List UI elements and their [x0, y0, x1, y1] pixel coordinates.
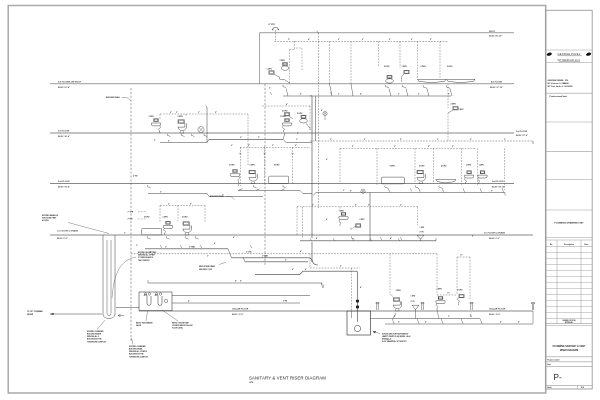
svg-text:2": 2": [428, 146, 430, 148]
svg-text:2" CWL: 2" CWL: [246, 251, 252, 253]
cellar hub drain: [411, 295, 420, 318]
new house trap note: [162, 310, 193, 330]
svg-text:1st FLOOR & GRADE: 1st FLOOR & GRADE: [57, 230, 79, 233]
svg-text:ELEV. 27'-6": ELEV. 27'-6": [516, 135, 528, 137]
building wall label left: [106, 96, 131, 100]
svg-text:PLUMBING SANITARY & VENT: PLUMBING SANITARY & VENT: [553, 345, 586, 348]
svg-text:BUILDING WALL: BUILDING WALL: [106, 96, 121, 99]
svg-text:ELEV. 18'-10": ELEV. 18'-10": [492, 187, 505, 189]
svg-text:8": 8": [286, 104, 288, 106]
svg-text:ROOF: ROOF: [489, 31, 496, 33]
svg-text:2": 2": [448, 316, 450, 318]
title block: sheet number P-: [554, 373, 562, 382]
4th floor fixture left of stack: wc 2DFU: [282, 111, 293, 120]
svg-text:2": 2": [231, 145, 233, 147]
svg-text:2 DFU: 2 DFU: [144, 216, 150, 218]
4th floor planter drain 1: [418, 66, 447, 88]
floor line: 6th FLOOR/LOW ROOF - 4th FLOOR: [50, 80, 514, 88]
floor line: ROOF: [260, 31, 515, 84]
svg-text:TOWNHOUSE COMPLEX: TOWNHOUSE COMPLEX: [87, 341, 107, 343]
svg-text:Project number: Project number: [547, 358, 560, 361]
svg-text:3": 3": [394, 316, 396, 318]
svg-text:ELEV. 51'-4": ELEV. 51'-4": [58, 86, 70, 89]
svg-text:BUILDINGS IN THE: BUILDINGS IN THE: [129, 354, 143, 356]
existing manhole note: [42, 214, 109, 234]
vtr/fai labels at wall: [128, 211, 147, 220]
svg-text:2": 2": [343, 190, 345, 192]
svg-text:N/ S: N/ S: [581, 387, 584, 389]
svg-text:1 DFU: 1 DFU: [280, 116, 286, 118]
svg-text:3" SAN: 3" SAN: [189, 246, 196, 249]
svg-text:1st FLOOR & GRADE: 1st FLOOR & GRADE: [484, 232, 506, 235]
floor drain 2nd floor right: [361, 189, 365, 193]
existing house trap (double U): [103, 235, 115, 319]
svg-text:2" VTR: 2" VTR: [128, 211, 134, 213]
svg-text:2": 2": [398, 94, 400, 96]
svg-text:ELEV. 60'-10": ELEV. 60'-10": [489, 36, 502, 38]
svg-text:1 DFU: 1 DFU: [466, 165, 472, 167]
1st floor branch drain left building (3in SAN): [145, 246, 312, 262]
1st floor lav right building: [339, 211, 349, 226]
svg-text:2 DFU: 2 DFU: [447, 66, 453, 68]
svg-text:2nd FLOOR: 2nd FLOOR: [58, 181, 70, 183]
svg-text:2 DFU: 2 DFU: [274, 164, 280, 166]
vent riser drops from roof header: [294, 41, 440, 84]
svg-text:2" FAI: 2" FAI: [128, 218, 133, 221]
vent thru roof VTR cap: [269, 23, 279, 41]
2nd floor tub left building: [269, 164, 289, 188]
svg-text:2nd FLOOR: 2nd FLOOR: [492, 181, 504, 183]
2nd floor branch drain right building: [313, 188, 505, 195]
svg-text:5 TOWNHOUSES IN: 5 TOWNHOUSES IN: [138, 257, 154, 259]
2nd floor lav pair right building: [465, 165, 488, 184]
main soil stack (solid riser): [312, 96, 318, 265]
svg-text:2": 2": [364, 139, 366, 141]
1st floor sink right building: [350, 219, 365, 239]
new house trap assembly box: [116, 292, 310, 311]
svg-text:3": 3": [240, 137, 242, 139]
svg-text:2": 2": [470, 139, 472, 141]
svg-text:2": 2": [190, 203, 192, 205]
vent drop to pump pit (dashed): [310, 254, 360, 311]
svg-text:NY Cert. Auth. #: 0013922: NY Cert. Auth. #: 0013922: [548, 85, 574, 88]
svg-text:3": 3": [491, 190, 493, 192]
svg-text:2": 2": [338, 94, 340, 96]
svg-text:2": 2": [154, 139, 156, 141]
svg-text:2 DFU: 2 DFU: [451, 104, 457, 106]
drawing title: SANITARY & VENT RISER DIAGRAM: [249, 376, 326, 385]
svg-text:EXISTING COMBINED: EXISTING COMBINED: [87, 331, 104, 333]
svg-text:4": 4": [235, 280, 237, 283]
logo: firm name GEORGE PAVEL / FP DESIGN LLC: [546, 52, 591, 62]
combined drain to sewer line C: [148, 280, 324, 288]
svg-text:2": 2": [198, 112, 200, 114]
cellar cleanout risers: [376, 302, 534, 323]
svg-text:2": 2": [368, 205, 370, 207]
svg-text:2": 2": [452, 146, 454, 148]
svg-text:4": 4": [360, 286, 362, 289]
2nd floor wc left building: [249, 164, 258, 188]
storm drain leader note: [199, 262, 226, 271]
svg-text:2 DFU: 2 DFU: [282, 111, 288, 113]
low roof fixture group: lav + wc at stack: [267, 50, 295, 84]
svg-text:2 DFU: 2 DFU: [182, 216, 188, 218]
svg-text:4th FLOOR: 4th FLOOR: [491, 80, 502, 83]
svg-text:2 DFU: 2 DFU: [390, 166, 396, 168]
4th floor planter drain 2: [446, 66, 475, 88]
svg-text:FP DESIGN LLC: FP DESIGN LLC: [558, 58, 581, 62]
svg-text:ELEV. -9'-0": ELEV. -9'-0": [489, 314, 501, 316]
svg-text:2": 2": [448, 94, 450, 96]
waste riser left building 3rd floor: [206, 106, 208, 143]
title block outer box: [546, 10, 593, 389]
cellar sink: [457, 290, 464, 305]
svg-text:ELEV. 0'-0": ELEV. 0'-0": [57, 238, 68, 240]
svg-text:2": 2": [258, 137, 260, 139]
svg-text:3": 3": [296, 139, 298, 141]
cellar drain line lower: [385, 319, 533, 325]
1st floor lav left building: [163, 216, 173, 239]
svg-text:P-: P-: [554, 373, 562, 382]
svg-text:2": 2": [170, 112, 172, 114]
svg-text:2 DFU: 2 DFU: [441, 166, 447, 168]
svg-text:2": 2": [124, 233, 126, 235]
1st floor tub left building: [142, 216, 162, 239]
3rd floor vent header left building: [160, 112, 248, 166]
to city sewer arrow: [27, 311, 102, 316]
svg-text:3": 3": [160, 191, 162, 193]
svg-text:1 DFU: 1 DFU: [479, 165, 485, 167]
svg-text:PLUMBING DRAWINGS SET: PLUMBING DRAWINGS SET: [554, 222, 584, 225]
title block: scale row: [547, 385, 584, 389]
floor line: 1st FLOOR & GRADE: [50, 230, 533, 240]
title block: PLUMBING DRAWINGS SET: [554, 222, 584, 225]
svg-text:2 DFU: 2 DFU: [419, 166, 425, 168]
svg-text:3" SAN: 3" SAN: [262, 255, 269, 258]
title block: sheet title PLUMBING SANITARY & VENT RISER DIAGRAM: [553, 345, 586, 352]
svg-text:Professional Seal: Professional Seal: [550, 95, 568, 98]
svg-text:2 DFU: 2 DFU: [297, 113, 303, 115]
cellar lav: [436, 289, 445, 319]
3rd floor lav right (at wall): [280, 116, 292, 132]
engineer license text block: [548, 79, 574, 98]
1st floor vent header right building: [297, 205, 418, 238]
svg-text:FLOOR LEVEL: FLOOR LEVEL: [172, 328, 183, 330]
1st floor hub drain right building: [417, 227, 425, 241]
svg-text:1 DFU: 1 DFU: [149, 116, 155, 118]
long vent run above cellar (dashed): [131, 251, 437, 295]
svg-text:2": 2": [272, 145, 274, 147]
svg-text:2": 2": [362, 39, 364, 41]
floor drain on 4th floor slab: [323, 111, 327, 120]
main soil stack vent (dashed riser x=318.6): [317, 31, 319, 208]
1st floor collection drain right building: [300, 237, 436, 241]
svg-text:2": 2": [215, 112, 217, 114]
svg-text:1 DFU: 1 DFU: [459, 109, 465, 111]
svg-text:2": 2": [418, 94, 420, 96]
svg-text:2": 2": [297, 133, 299, 135]
svg-text:ELEV. 19'-4": ELEV. 19'-4": [58, 186, 70, 189]
svg-text:4": 4": [292, 268, 294, 271]
3rd floor floor drain: [198, 127, 207, 137]
svg-text:2": 2": [340, 266, 342, 268]
svg-text:4": 4": [316, 237, 318, 240]
svg-text:2 DFU: 2 DFU: [250, 164, 256, 166]
cellar vent risers dashed: [390, 253, 470, 300]
4th floor wc W-1: [384, 66, 393, 88]
svg-text:4" VTR: 4" VTR: [269, 23, 276, 26]
svg-text:BUILDING SEWER: BUILDING SEWER: [87, 334, 102, 336]
svg-text:2": 2": [411, 39, 413, 41]
8 inch vent below 4th floor dashed: [262, 104, 310, 130]
svg-text:Description: Description: [564, 243, 574, 246]
svg-text:2": 2": [176, 112, 178, 114]
svg-text:Scale: Scale: [547, 387, 551, 389]
existing combined drain note: [129, 338, 149, 358]
svg-text:2": 2": [136, 245, 138, 247]
svg-text:1 DFU: 1 DFU: [229, 164, 235, 166]
2nd floor vent header left building: [239, 145, 310, 186]
backwater valve note: [136, 311, 153, 327]
svg-text:ELEV. -9'-0": ELEV. -9'-0": [232, 314, 244, 316]
1st floor wc left building: [182, 216, 199, 239]
misc tick marks on pipes: [160, 92, 472, 317]
svg-text:ISSUED FOR DOB: ISSUED FOR DOB: [563, 320, 577, 322]
3rd floor branch drain left building: [160, 133, 312, 143]
cellar drain line upper: [371, 316, 481, 318]
storm drain line A: [243, 257, 308, 262]
svg-text:4": 4": [308, 38, 310, 41]
misc pipe size labels: [124, 88, 520, 324]
4th floor branch drain line: [283, 84, 452, 96]
svg-text:2": 2": [300, 94, 302, 96]
svg-text:GEORGE PAVEL, P.E.: GEORGE PAVEL, P.E.: [548, 79, 570, 82]
svg-text:CELLAR FLOOR: CELLAR FLOOR: [489, 308, 506, 311]
svg-text:2": 2": [248, 145, 250, 147]
svg-text:2": 2": [269, 88, 271, 90]
pump discharge pipe with check valves: [356, 271, 362, 322]
2nd floor wc right building: [415, 166, 425, 189]
svg-text:ELEV. 0'-0": ELEV. 0'-0": [489, 238, 500, 240]
svg-text:2": 2": [400, 139, 402, 141]
svg-text:3rd FLOOR: 3rd FLOOR: [516, 130, 528, 133]
3rd floor lav left: [149, 116, 162, 133]
svg-text:Date: Date: [547, 363, 551, 366]
svg-text:2 DFU: 2 DFU: [178, 116, 184, 118]
4th floor lavatory L-1: [402, 66, 410, 88]
svg-text:1 DFU: 1 DFU: [437, 289, 443, 291]
svg-text:2": 2": [389, 39, 391, 41]
building wall (right of left unit) dashed line: [264, 84, 266, 266]
svg-text:2": 2": [330, 139, 332, 141]
sewage ejector pit: [347, 311, 371, 335]
svg-text:4": 4": [390, 237, 392, 240]
title block: project number / date rows: [547, 358, 560, 366]
svg-text:2": 2": [430, 39, 432, 41]
svg-text:No.: No.: [550, 244, 553, 246]
cellar wc: [393, 290, 402, 318]
svg-text:GEORGE PAVEL: GEORGE PAVEL: [557, 52, 580, 56]
revision table: [546, 240, 593, 324]
svg-text:Date: Date: [584, 243, 588, 246]
stack wc on 3rd floor: [296, 48, 310, 130]
long dashed vent at 2nd floor ceiling: [310, 139, 533, 144]
svg-text:2": 2": [400, 205, 402, 207]
svg-text:3rd FLOOR: 3rd FLOOR: [58, 130, 70, 133]
svg-text:SANITARY & VENT RISER DIAGRAM: SANITARY & VENT RISER DIAGRAM: [249, 376, 326, 381]
svg-text:3": 3": [165, 246, 167, 248]
1st floor vent header left building: [160, 203, 205, 223]
svg-text:2": 2": [295, 145, 297, 147]
existing house trap note: [112, 251, 157, 298]
svg-text:SEE DWG. P-302: SEE DWG. P-302: [199, 269, 212, 271]
sub-cluster below 4th floor right: lav 2DFU: [448, 84, 464, 141]
building wall label lower: [210, 195, 235, 199]
svg-text:3": 3": [350, 190, 352, 192]
svg-text:ELEV. 30'-4": ELEV. 30'-4": [58, 135, 70, 138]
svg-text:3": 3": [285, 259, 287, 261]
title block dividers: [546, 50, 593, 385]
svg-text:2": 2": [437, 139, 439, 141]
2nd floor tub right building: [381, 166, 404, 189]
svg-text:RISER DIAGRAM: RISER DIAGRAM: [560, 349, 578, 352]
svg-text:1 DFU: 1 DFU: [402, 66, 408, 68]
svg-text:4": 4": [360, 93, 362, 96]
roof vent header dashed: [275, 38, 449, 41]
svg-text:BUILDINGS IN THE: BUILDINGS IN THE: [87, 339, 101, 341]
svg-text:2 DFU: 2 DFU: [360, 219, 366, 221]
2nd floor fd near wall: [133, 175, 151, 188]
svg-text:CELLAR FLOOR: CELLAR FLOOR: [232, 308, 249, 311]
svg-text:2 DFU: 2 DFU: [280, 60, 286, 62]
2nd floor lav left building: [229, 164, 240, 185]
3rd floor wc left: [178, 116, 187, 137]
svg-text:2": 2": [310, 95, 312, 97]
svg-text:2": 2": [504, 139, 506, 141]
svg-text:3 DFU: 3 DFU: [396, 290, 402, 292]
svg-text:ELEV. 37'-10": ELEV. 37'-10": [490, 87, 503, 89]
2nd floor vent header right building: [340, 146, 505, 190]
svg-text:2": 2": [338, 39, 340, 41]
svg-text:TOWNHOUSE COMPLEX: TOWNHOUSE COMPLEX: [129, 356, 149, 358]
svg-text:2": 2": [352, 146, 354, 148]
svg-text:2": 2": [288, 39, 290, 41]
svg-text:EXISTING COMBINED: EXISTING COMBINED: [129, 346, 146, 348]
svg-text:2": 2": [394, 146, 396, 148]
svg-text:6th FLOOR/LOW ROOF: 6th FLOOR/LOW ROOF: [58, 80, 82, 83]
waste riser to 1st floor drain: [369, 193, 371, 241]
existing combined sewer note: [87, 320, 107, 343]
storm drain line B: [255, 268, 357, 274]
svg-text:1 DFU: 1 DFU: [457, 290, 463, 292]
floor line: CELLAR FLOOR: [139, 308, 533, 316]
floor line: 3rd FLOOR: [50, 130, 528, 138]
svg-text:THE COMPLEX: THE COMPLEX: [138, 260, 150, 262]
2nd floor shower right building: [436, 166, 456, 189]
2nd floor branch drain left building: [148, 189, 312, 197]
svg-text:1 DFU: 1 DFU: [267, 69, 273, 71]
building wall (left townhouse) dashed line: [130, 88, 132, 341]
svg-text:SEWER: SEWER: [27, 314, 34, 316]
svg-text:2 DFU: 2 DFU: [384, 66, 390, 68]
svg-text:2 DFU: 2 DFU: [421, 66, 427, 68]
svg-text:2": 2": [355, 205, 357, 207]
svg-text:TO CITY COMBINED: TO CITY COMBINED: [27, 311, 44, 313]
svg-text:3": 3": [207, 256, 209, 258]
svg-text:3": 3": [222, 194, 224, 196]
ejector pump note: [373, 331, 410, 343]
svg-text:1 DFU: 1 DFU: [163, 216, 169, 218]
svg-text:2": 2": [168, 203, 170, 205]
floor line: 2nd FLOOR: [50, 181, 514, 188]
svg-text:NY License #: 084808: NY License #: 084808: [548, 82, 570, 85]
svg-text:2": 2": [168, 140, 170, 142]
flow arrow between traps: [118, 314, 124, 316]
svg-text:2" FD: 2" FD: [133, 175, 138, 177]
